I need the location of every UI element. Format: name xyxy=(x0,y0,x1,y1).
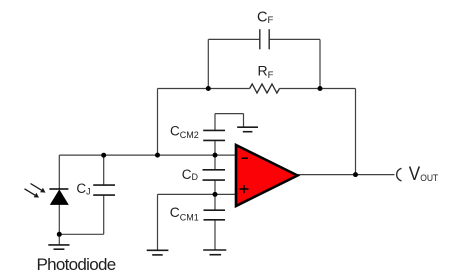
wire: CF loop right vertical xyxy=(319,39,321,88)
node: output junction dot xyxy=(353,172,358,177)
wire: vertical from non-inverting input down to ground xyxy=(157,194,159,250)
capacitor CJ plates xyxy=(93,185,115,195)
svg-text:RF: RF xyxy=(258,63,274,81)
capacitor CD plates xyxy=(203,170,226,180)
svg-text:CCM1: CCM1 xyxy=(170,205,199,222)
photodiode D1 triangle xyxy=(51,190,68,204)
ground: non-inverting input ground xyxy=(147,250,169,255)
wire: column between non-inverting node and CCM1 xyxy=(214,194,216,210)
wire: column between inverting node and CD xyxy=(214,155,216,170)
wire: output line from op-amp to terminal xyxy=(297,174,395,176)
wire: feedback right vertical down to output xyxy=(355,89,357,175)
ground: CCM1 ground xyxy=(203,250,226,255)
node: CJ top junction dot xyxy=(101,153,106,158)
output terminal arc xyxy=(397,168,402,181)
wire: CCM2 top lead up xyxy=(214,114,216,131)
capacitor CF plates xyxy=(260,29,269,49)
resistor RF xyxy=(250,84,280,93)
op-amp U1 xyxy=(236,145,298,206)
ground: CCM2 ground above op-amp xyxy=(237,127,258,132)
wire: CCM2 ground stem xyxy=(243,114,245,127)
op-amp plus sign xyxy=(240,185,249,193)
node: CCM2/inverting input junction dot xyxy=(213,153,218,158)
photodiode D1 cathode bar xyxy=(49,188,68,190)
svg-text:CD: CD xyxy=(182,167,199,182)
wire: photodiode anode lead xyxy=(58,204,60,245)
node: CD/CCM1 non-inverting junction dot xyxy=(213,192,218,197)
light arrow lower xyxy=(25,189,40,198)
capacitor CCM2 plates xyxy=(203,130,225,140)
svg-text:CJ: CJ xyxy=(76,181,90,197)
node: RF right junction dot xyxy=(318,86,323,91)
wire: CF loop top right segment xyxy=(269,38,320,40)
ground: photodiode ground xyxy=(48,245,69,249)
op-amp minus sign xyxy=(242,157,249,159)
wire: photodiode cathode lead xyxy=(58,155,60,189)
wire: CF loop top left segment xyxy=(208,38,259,40)
node: feedback tap junction dot xyxy=(155,153,160,158)
wire: vertical from RF line down to inverting input xyxy=(157,89,159,156)
wire: column between CD and non-inverting node xyxy=(214,180,216,194)
node: RF left junction dot xyxy=(206,86,211,91)
wire: bottom horizontal CJ to photodiode anode xyxy=(59,233,103,235)
svg-text:Photodiode: Photodiode xyxy=(37,255,116,273)
wire: CCM2 ground lead horizontal xyxy=(215,113,244,115)
wire: CJ top lead xyxy=(103,155,105,185)
wire: CCM2 bottom lead to inverting node xyxy=(214,140,216,155)
capacitor CCM1 plates xyxy=(204,210,226,220)
light arrow upper xyxy=(31,184,46,193)
wire: CF loop left vertical xyxy=(207,39,209,88)
wire: CCM1 bottom lead to ground xyxy=(214,220,216,250)
wire: inverting input line from photodiode node to op-amp xyxy=(59,154,236,156)
svg-text:CF: CF xyxy=(257,9,273,26)
svg-text:VOUT: VOUT xyxy=(409,163,439,184)
wire: feedback RF line left segment xyxy=(158,88,250,90)
wire: CJ bottom lead xyxy=(103,195,105,234)
node: photodiode anode junction dot xyxy=(57,232,62,237)
wire: non-inverting input line xyxy=(158,193,237,195)
wire: feedback RF line right segment xyxy=(280,88,356,90)
svg-text:CCM2: CCM2 xyxy=(170,123,199,140)
